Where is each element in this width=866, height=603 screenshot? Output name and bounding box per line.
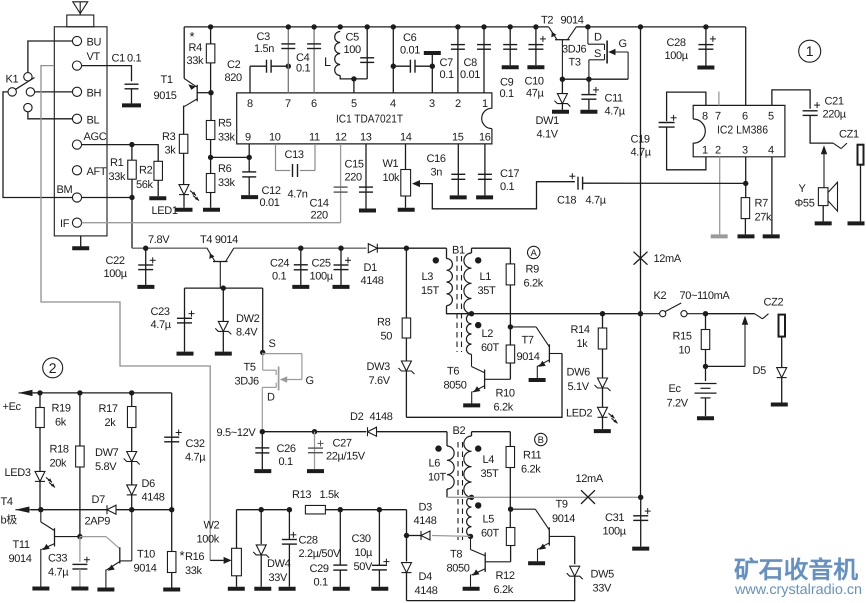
resistor R15	[701, 330, 710, 350]
battery Ec	[695, 384, 717, 398]
wire C6 right stub	[415, 65, 432, 67]
svg-text:DW5: DW5	[591, 569, 615, 581]
svg-text:CZ2: CZ2	[764, 297, 784, 309]
svg-text:0.1: 0.1	[296, 63, 310, 75]
svg-text:C14: C14	[310, 198, 329, 210]
wire R15 top	[705, 314, 707, 330]
svg-text:BU: BU	[87, 37, 102, 49]
junction rail/L	[338, 24, 343, 29]
wire L3 bottom	[447, 306, 472, 314]
junction B2 center tap	[469, 495, 474, 500]
svg-text:2: 2	[455, 98, 461, 110]
svg-text:4148: 4148	[142, 492, 165, 504]
wire R8 to DW3	[405, 338, 407, 361]
wire T7 base to DW3 line	[406, 354, 562, 418]
diode D3	[421, 531, 430, 540]
wire R18 top	[79, 393, 81, 446]
svg-text:0.01: 0.01	[460, 69, 480, 81]
pin IF terminal circle	[72, 218, 81, 227]
svg-text:AFT: AFT	[87, 166, 107, 178]
wire C25 column	[340, 248, 342, 285]
wire T1 emitter from rail	[183, 27, 185, 79]
svg-text:C23: C23	[151, 306, 170, 318]
wire to plug arrow	[706, 365, 746, 367]
svg-text:33k: 33k	[218, 177, 236, 189]
wire DW1 to ground	[561, 104, 563, 110]
wire T4 base node	[185, 287, 263, 289]
svg-text:0.1: 0.1	[272, 271, 286, 283]
capacitor C2 (pin8-pin7)	[267, 60, 272, 73]
wire VT tuning line (gray)	[41, 66, 210, 561]
pin BU terminal circle	[72, 36, 81, 45]
svg-text:C3: C3	[257, 31, 271, 43]
wire L bottom	[340, 76, 367, 79]
svg-text:L5: L5	[483, 514, 495, 526]
arrow +Ec	[19, 390, 41, 396]
svg-text:K1: K1	[6, 74, 19, 86]
svg-text:4148: 4148	[370, 411, 393, 423]
junction D1/R8	[404, 246, 409, 251]
wire regulator node	[562, 78, 628, 80]
svg-text:D7: D7	[92, 494, 106, 506]
transformer B2 phase dot L5	[475, 502, 481, 508]
wire R4 bottom	[210, 63, 212, 93]
wire L4 top	[472, 431, 511, 433]
svg-text:R5: R5	[218, 118, 232, 130]
svg-text:LED2: LED2	[566, 408, 592, 420]
wire R16 to ground	[171, 573, 173, 588]
svg-text:D6: D6	[142, 478, 156, 490]
wire W2 column	[236, 510, 238, 549]
ground (C31)	[632, 547, 649, 551]
wire supply feed vertical (rail to A line)	[640, 27, 642, 314]
svg-text:G: G	[619, 38, 627, 50]
transformer B1 phase dot L3	[433, 257, 439, 263]
svg-text:4148: 4148	[361, 275, 384, 287]
junction rail/C26 and T5 D	[260, 429, 265, 434]
svg-text:10: 10	[269, 132, 281, 144]
wire D3 left stub	[407, 535, 422, 537]
arrow T4 b-pole	[15, 507, 37, 513]
svg-text:0.1: 0.1	[500, 181, 514, 193]
wire K1 pole to BM (left edge)	[3, 92, 72, 198]
zener DW6	[595, 378, 611, 391]
wire C2 right stub	[271, 65, 288, 67]
wire C22 column	[145, 248, 147, 285]
svg-text:2.2µ/50V: 2.2µ/50V	[299, 548, 341, 560]
svg-text:5.1V: 5.1V	[568, 381, 590, 393]
junction R11/R12/T9	[508, 507, 513, 512]
svg-text:R4: R4	[189, 42, 203, 54]
svg-text:IC2 LM386: IC2 LM386	[717, 125, 768, 137]
wire C11 to ground	[588, 99, 590, 109]
wire pin4 column	[392, 27, 394, 93]
ground (LED2)	[594, 429, 611, 433]
ground (W1)	[398, 208, 415, 212]
svg-text:12mA: 12mA	[654, 253, 682, 265]
capacitor C33 (electrolytic)	[72, 557, 90, 569]
transistor T10 9014 (gray collector wire)	[80, 510, 132, 588]
capacitor C12	[242, 172, 256, 177]
capacitor C21 (electrolytic)	[803, 102, 821, 115]
capacitor C24	[294, 265, 308, 270]
junction rail/C10	[533, 24, 538, 29]
svg-text:33V: 33V	[269, 572, 289, 584]
ground (DW2)	[215, 352, 232, 356]
resistor R9	[506, 264, 515, 285]
svg-text:R1: R1	[110, 157, 124, 169]
wire pin3 column	[431, 54, 433, 93]
junction rail/pin7	[286, 24, 291, 29]
junction rail/pin2	[455, 24, 460, 29]
svg-text:0.1: 0.1	[500, 88, 514, 100]
junction R1/BM	[129, 195, 134, 200]
ground (C30)	[371, 587, 388, 591]
svg-text:100k: 100k	[197, 534, 220, 546]
wire 9.5-12V rail	[262, 431, 366, 433]
transistor T4 9014 (series regulator)	[207, 248, 234, 288]
wire pin1 column	[483, 27, 485, 93]
wire T9 base to DW5	[574, 536, 576, 564]
wire feed vertical lower	[640, 314, 642, 498]
wire IC2 pin8 loop to C19	[667, 92, 706, 121]
IC IC2 LM386 body	[693, 105, 785, 156]
wire R2 to ground	[157, 180, 159, 196]
svg-text:T1: T1	[161, 74, 173, 86]
svg-text:100µ: 100µ	[104, 268, 128, 280]
zener DW2	[215, 321, 231, 334]
wire L6 top	[446, 432, 448, 446]
inductor L1 (35T)	[464, 253, 472, 314]
wire AGC to R2	[82, 145, 159, 162]
svg-text:C18: C18	[557, 195, 576, 207]
svg-text:B: B	[538, 435, 544, 446]
wire D6 to b-node	[131, 495, 133, 510]
switch K2 contacts	[641, 303, 706, 317]
capacitor C4	[307, 44, 321, 49]
svg-text:0.1: 0.1	[314, 577, 328, 589]
svg-text:9: 9	[245, 132, 251, 144]
ground (T6)	[463, 403, 480, 407]
svg-text:0.1: 0.1	[127, 53, 141, 65]
wire DW2 column	[222, 288, 224, 321]
wire IC2 pin6 supply	[745, 27, 747, 106]
resistor R12	[506, 528, 514, 546]
svg-text:4.7n: 4.7n	[288, 189, 308, 201]
switch K1 contact circles	[8, 73, 35, 112]
svg-text:R11: R11	[523, 450, 542, 462]
jack CZ1 body	[858, 145, 864, 165]
svg-text:7.2V: 7.2V	[667, 398, 689, 410]
wire C10 column	[535, 27, 537, 65]
wire R13 to C29 to D3	[325, 509, 406, 511]
ground (R6)	[203, 208, 220, 212]
wire C6 left stub	[393, 65, 410, 67]
wire C26 column	[261, 432, 263, 469]
svg-text:T8: T8	[450, 549, 462, 561]
wire to T5 source	[262, 288, 264, 352]
wire R8 top	[405, 248, 407, 318]
wire C23 column	[184, 288, 186, 352]
wire D2 to B2	[377, 431, 448, 433]
svg-text:A: A	[531, 248, 538, 259]
wire DW5 to bottom rail	[407, 576, 575, 600]
wire pin6 column	[313, 27, 315, 93]
svg-text:33V: 33V	[593, 583, 613, 595]
wire R4 top	[210, 27, 212, 44]
wire LED1 to ground	[183, 195, 185, 208]
junction A line / feed	[638, 311, 643, 316]
wire CZ1 to ground	[860, 165, 862, 222]
svg-text:15: 15	[452, 132, 464, 144]
jack CZ2 contact	[755, 314, 769, 319]
inductor L4 (35T)	[464, 436, 472, 497]
svg-text:LED1: LED1	[152, 205, 178, 217]
ground (IC2 pin4)	[763, 234, 780, 238]
svg-text:C11: C11	[605, 93, 624, 105]
IC IC1 TDA7021T body	[237, 93, 492, 144]
capacitor C22 (electrolytic)	[138, 257, 156, 269]
wire R11 bottom	[509, 468, 511, 528]
junction T4 base/DW2	[221, 285, 226, 290]
junction R5/R6/pin9	[208, 155, 213, 160]
wire C2 left stub	[250, 65, 267, 67]
svg-text:R10: R10	[496, 388, 515, 400]
svg-text:S: S	[594, 48, 601, 60]
svg-text:11: 11	[309, 132, 320, 144]
svg-text:4.7µ: 4.7µ	[151, 319, 172, 331]
svg-text:AGC: AGC	[84, 131, 107, 143]
wire W2 wiper	[210, 559, 223, 561]
svg-text:9014: 9014	[561, 15, 584, 27]
wire DW4 to ground	[260, 555, 262, 587]
ground (C27)	[307, 469, 324, 473]
wire LED2 to ground	[602, 417, 604, 429]
svg-text:R19: R19	[52, 403, 71, 415]
capacitor C8	[477, 45, 491, 50]
svg-text:L: L	[324, 55, 331, 69]
svg-text:50: 50	[381, 331, 393, 343]
wire pin12/C14 column (gray)	[340, 144, 342, 223]
wire C21 to CZ1	[810, 115, 833, 143]
capacitor C14	[334, 187, 348, 192]
wire C29 to ground	[339, 570, 341, 587]
svg-text:C15: C15	[345, 159, 364, 171]
svg-text:3n: 3n	[431, 167, 443, 179]
svg-text:G: G	[306, 375, 314, 387]
capacitor C26	[255, 448, 269, 453]
connector block (tuner pins)	[54, 27, 107, 236]
junction L5 bottom/T8/D3	[468, 534, 473, 539]
svg-text:100µ: 100µ	[603, 526, 627, 538]
svg-text:9014: 9014	[134, 563, 157, 575]
pin BL terminal circle	[72, 114, 81, 123]
svg-text:0.1: 0.1	[279, 456, 293, 468]
wire R14 top	[602, 314, 604, 328]
ground (C12)	[241, 195, 258, 199]
junction rail/R19	[37, 390, 42, 395]
ground (C1)	[122, 103, 141, 107]
svg-text:T5: T5	[244, 362, 256, 374]
svg-text:1.5k: 1.5k	[320, 489, 340, 501]
svg-text:6.2k: 6.2k	[524, 278, 544, 290]
svg-text:12mA: 12mA	[576, 473, 604, 485]
diode D4	[402, 563, 412, 573]
ground (C28 bottom)	[279, 587, 296, 591]
transformer B1 phase dot L1	[475, 257, 481, 263]
wire DW3 bottom	[405, 371, 407, 417]
svg-text:R13: R13	[292, 489, 311, 501]
wire pin9 to R5/R6 node	[211, 156, 250, 158]
resistor R4	[206, 44, 215, 63]
potentiometer W1 wiper arrow	[412, 180, 420, 187]
svg-text:C5: C5	[346, 32, 360, 44]
svg-text:35T: 35T	[481, 468, 500, 480]
svg-text:CZ1: CZ1	[839, 129, 859, 141]
diode D6	[127, 485, 137, 495]
svg-text:R16: R16	[185, 551, 204, 563]
ground (C9)	[502, 65, 519, 69]
svg-text:35T: 35T	[478, 285, 497, 297]
wire pin13/C15 column	[365, 144, 367, 209]
svg-text:0.01: 0.01	[260, 197, 280, 209]
svg-text:C24: C24	[270, 258, 289, 270]
wire T1 collector to R3	[184, 106, 185, 134]
ground (pin3, bar up)	[424, 51, 441, 55]
wire D4 to bottom rail	[406, 573, 408, 601]
svg-text:B1: B1	[452, 245, 465, 257]
junction b-node/C32/R16	[169, 507, 174, 512]
junction rail/C27	[312, 429, 317, 434]
resistor R10	[506, 345, 515, 363]
wire C19 to pin1 loop	[667, 127, 706, 170]
wire CZ2 to D5	[781, 337, 783, 368]
ground (T7)	[529, 378, 546, 382]
svg-text:33k: 33k	[187, 55, 205, 67]
svg-text:DW3: DW3	[367, 361, 391, 373]
transistor T3 3DJ6 (JFET)	[588, 27, 628, 79]
wire R7 to ground	[744, 219, 746, 235]
svg-text:R2: R2	[139, 165, 153, 177]
svg-text:1: 1	[482, 98, 488, 110]
ground (C33)	[71, 587, 88, 591]
wire 7.8V rail mid	[234, 247, 367, 249]
svg-text:100µ: 100µ	[665, 50, 689, 62]
svg-text:L4: L4	[483, 454, 495, 466]
junction pin3/C18/R7	[743, 181, 748, 186]
svg-text:C33: C33	[48, 553, 67, 565]
svg-text:8050: 8050	[447, 563, 470, 575]
ground (T9)	[528, 561, 545, 565]
transistor T6 8050	[472, 354, 511, 403]
svg-text:10: 10	[679, 345, 691, 357]
wire R10 bottom to T6 base	[509, 363, 511, 379]
transformer B1 phase dot L2	[475, 322, 481, 328]
capacitor C1	[125, 84, 139, 89]
junction R9/R10/T7	[508, 324, 513, 329]
wire W2 to ground	[236, 576, 238, 587]
svg-text:C28: C28	[299, 535, 318, 547]
capacitor C19 (electrolytic)	[659, 115, 677, 127]
svg-text:C10: C10	[525, 76, 544, 88]
capacitor C29	[333, 565, 347, 570]
wire Ec to ground	[705, 398, 707, 416]
transistor T5 3DJ6 (JFET, gray)	[262, 353, 302, 431]
ground (C17)	[476, 195, 493, 199]
svg-text:B2: B2	[453, 425, 466, 437]
ground (C26)	[254, 469, 271, 473]
svg-text:D3: D3	[419, 502, 433, 514]
wire C24 column	[300, 248, 302, 285]
transistor T1 9015 (PNP)	[184, 79, 197, 107]
capacitor C13 bracket (pins 10-11)	[276, 144, 316, 171]
svg-text:C21: C21	[825, 96, 844, 108]
ground (CZ1)	[848, 221, 865, 225]
svg-text:4.7µ: 4.7µ	[185, 452, 206, 464]
junction rail/R17	[129, 390, 134, 395]
svg-text:S: S	[269, 338, 276, 350]
wire pin15/C16 column	[457, 144, 459, 196]
ground (R16)	[163, 588, 180, 592]
resistor R13	[305, 505, 325, 514]
ground (R2)	[149, 196, 166, 200]
capacitor C30 (electrolytic)	[372, 559, 390, 570]
capacitor C32 (electrolytic)	[164, 430, 182, 442]
svg-text:DW4: DW4	[267, 558, 291, 570]
junction R15/Ec/arrow	[703, 364, 708, 369]
wire main line B (gray)	[447, 496, 641, 498]
ground (Ec)	[697, 416, 714, 420]
wire pin8 to C2	[249, 66, 251, 93]
junction rail/pin4	[391, 24, 396, 29]
wire C18 to IC2 pin3	[583, 182, 746, 184]
svg-text:C8: C8	[464, 57, 478, 69]
junction rail/pin6	[311, 24, 316, 29]
wire R5 column	[210, 93, 212, 121]
wire pin16/C17 column	[484, 144, 486, 196]
transformer B2 core	[458, 442, 463, 540]
transistor T9 9014	[511, 509, 575, 561]
svg-text:*: *	[180, 548, 185, 563]
junction D3/D4	[404, 533, 409, 538]
wire R15 to Ec	[705, 350, 707, 382]
wire DW4 column	[260, 510, 262, 544]
connector block ground stem	[80, 236, 82, 247]
wire R6 to ground	[210, 193, 212, 208]
svg-text:R12: R12	[496, 570, 515, 582]
resistor R11	[506, 447, 515, 468]
ground (C16)	[450, 195, 467, 199]
svg-text:DW1: DW1	[536, 115, 560, 127]
wire L4 column top	[471, 432, 473, 436]
wire K1 mid contact to BH	[35, 91, 73, 93]
svg-text:9014: 9014	[9, 553, 32, 565]
svg-text:220µ: 220µ	[823, 109, 847, 121]
svg-text:4.7µ: 4.7µ	[605, 106, 626, 118]
svg-text:1.5n: 1.5n	[254, 43, 274, 55]
wire R17 top	[131, 393, 133, 407]
transistor T8 8050	[471, 536, 511, 586]
svg-text:50V: 50V	[354, 561, 374, 573]
svg-text:IC1 TDA7021T: IC1 TDA7021T	[336, 114, 403, 126]
pin VT terminal circle	[72, 61, 81, 70]
capacitor C17	[478, 174, 492, 179]
svg-text:C28: C28	[667, 37, 686, 49]
ground (LED1)	[176, 208, 193, 212]
resistor R2	[154, 161, 163, 180]
svg-text:Ec: Ec	[669, 383, 682, 395]
diode D5	[777, 368, 787, 378]
